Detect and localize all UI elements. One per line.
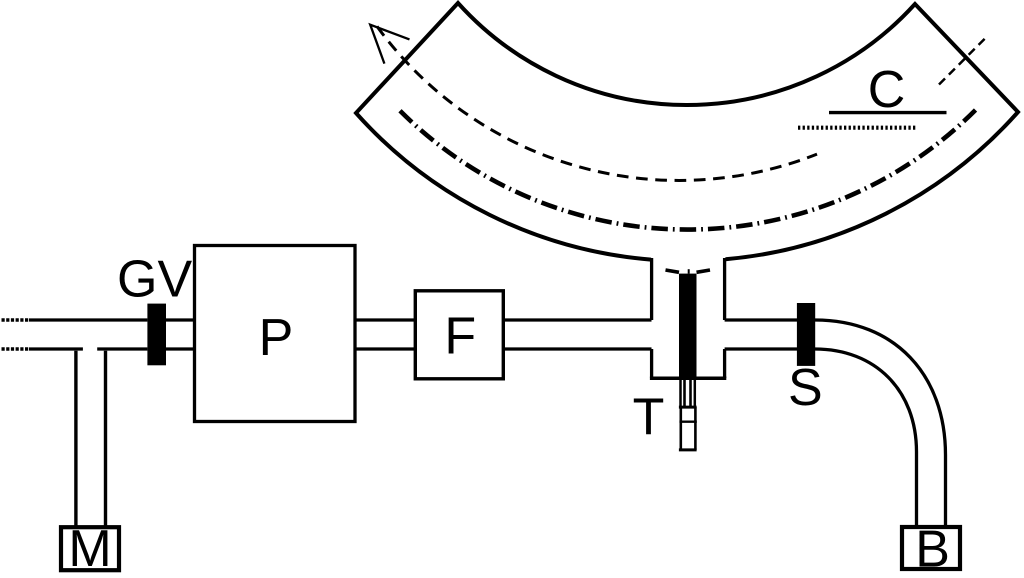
valve S (black gate) <box>797 303 815 366</box>
probe bottom cap <box>679 448 697 451</box>
svg-text:P: P <box>259 309 294 367</box>
svg-text:F: F <box>444 307 476 365</box>
curved pipe inner wall S to B <box>815 349 917 527</box>
hidden duct-wall dash right of probe top <box>697 270 711 272</box>
thermocouple T black body <box>679 274 697 379</box>
main pipe bottom wall (M branch to GV) <box>97 347 147 350</box>
pipe walls junction to S valve <box>725 318 797 321</box>
probe inner wire right <box>689 379 692 406</box>
small center tick above thermocouple <box>688 269 690 273</box>
pipe walls F to junction <box>504 318 652 321</box>
svg-text:GV: GV <box>117 251 192 309</box>
probe sheath upper left wall <box>679 379 682 407</box>
branch pipe left wall to M <box>74 351 77 526</box>
flow arrow head at left end of dashed streamline <box>370 25 409 64</box>
hidden duct-wall dash left of probe top <box>666 270 680 272</box>
solid underline under C <box>829 111 947 114</box>
svg-text:T: T <box>633 389 665 447</box>
probe sheath upper right wall <box>694 379 697 407</box>
fine dotted line under C underline <box>798 126 916 130</box>
svg-text:C: C <box>868 61 906 119</box>
curved pipe outer wall S to B <box>815 320 946 527</box>
probe lower left wall <box>679 407 682 450</box>
dotted continuation stub bottom <box>2 347 30 350</box>
probe divider bar 2 <box>679 421 696 423</box>
box M <box>61 527 119 570</box>
svg-text:S: S <box>788 359 823 417</box>
dotted continuation stub top <box>2 318 30 321</box>
box B <box>902 527 960 569</box>
pipe walls P to F <box>356 318 414 321</box>
svg-text:B: B <box>915 521 950 578</box>
svg-text:M: M <box>68 520 111 578</box>
junction left wall upper segment <box>650 258 653 320</box>
main pipe bottom wall (left of M branch) <box>29 347 83 350</box>
branch pipe right wall to M <box>104 351 107 526</box>
valve GV (black gate) <box>147 304 166 366</box>
probe divider bar 1 <box>679 406 697 409</box>
dash-dot centerline arc of duct <box>400 108 978 230</box>
probe inner wire left <box>683 379 686 406</box>
pump box P <box>195 246 356 422</box>
pipe walls GV to pump P <box>166 318 194 321</box>
dashed streamline arc inside duct <box>377 26 817 180</box>
probe lower right wall <box>694 407 697 450</box>
short dashed continuation of streamline through right end cap <box>939 36 988 85</box>
main pipe top wall (left of GV) <box>29 318 147 321</box>
junction left wall lower segment <box>650 349 653 378</box>
junction bottom plate <box>650 376 726 380</box>
filter box F <box>415 291 503 379</box>
junction right wall upper segment <box>723 258 726 320</box>
curved duct C outline (arcs and end caps) <box>356 3 1018 260</box>
junction right wall lower segment <box>723 349 726 378</box>
